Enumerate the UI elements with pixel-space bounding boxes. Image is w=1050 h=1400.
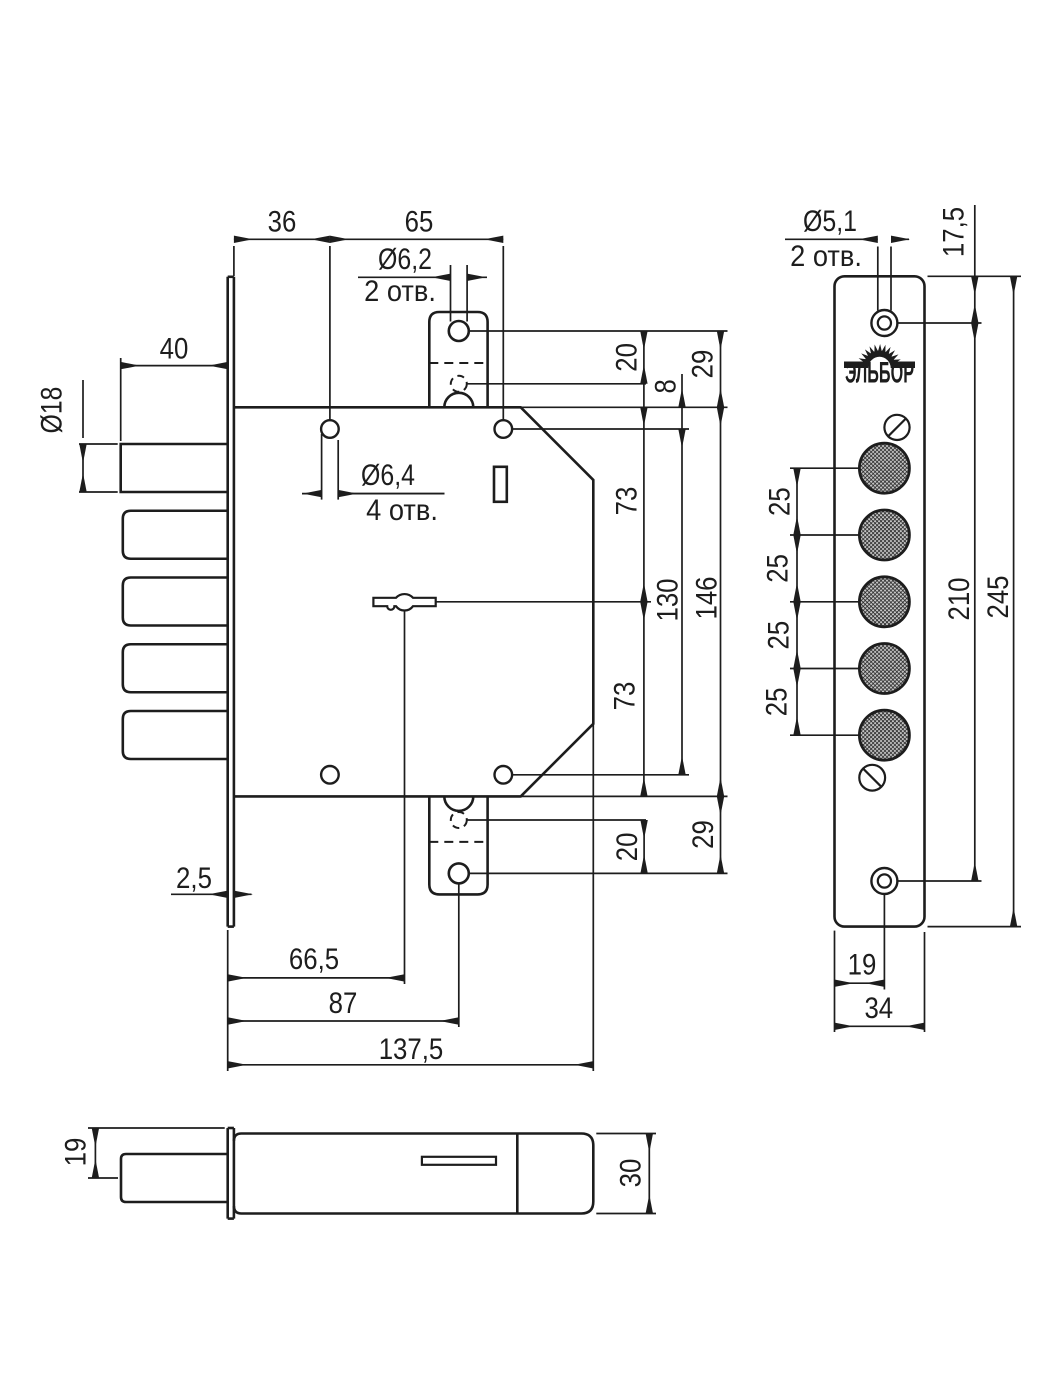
deadbolt 1 (dimensioned) [121,444,228,492]
dimension 36 (backset) [234,206,330,420]
mounting hole bottom-right (6.4) [495,766,513,784]
dimension chain 25x4 (bolt hole pitch) [760,468,859,735]
svg-text:40: 40 [160,333,189,366]
extension of plate bottom edge [928,926,1022,928]
svg-text:Ø5,1: Ø5,1 [803,205,857,238]
leader from top-right mount hole [512,428,689,430]
svg-text:19: 19 [848,949,877,982]
svg-text:Ø18: Ø18 [35,387,68,434]
svg-text:65: 65 [405,206,434,239]
dimension 17,5 [937,205,974,323]
svg-text:ЭЛЬБОР: ЭЛЬБОР [845,357,914,390]
svg-text:25: 25 [762,621,795,650]
dimension Ø18 (bolt diameter) [35,380,117,492]
svg-text:25: 25 [760,688,793,717]
dimension Ø6,2 2 holes (tab holes) [358,243,487,322]
svg-text:8: 8 [650,379,683,393]
svg-text:137,5: 137,5 [379,1033,444,1066]
top fixing tab [429,312,487,407]
top tab dashed fold line [429,362,487,364]
svg-text:20: 20 [610,343,643,372]
rectangular latch slot [494,467,507,502]
leader from plate bottom hole [897,880,981,882]
side view lock body [234,1134,593,1214]
bottom tab screw hole [449,863,469,883]
dimension 73 (upper half) [610,384,644,602]
dimension 19 (bolt axis offset) [59,1128,224,1178]
top tab half-round notch [444,393,473,407]
svg-text:2 отв.: 2 отв. [364,275,436,308]
extension of body bottom edge [521,795,728,797]
leader from top tab hole [469,330,728,332]
bolt hole 1 (hatched) [859,443,909,493]
mounting hole top-left (6.4) [321,420,339,438]
svg-text:Ø6,2: Ø6,2 [378,243,432,276]
dimension 210 (screw hole spacing) [943,323,976,881]
dimension 2,5 (faceplate thickness) [171,862,252,895]
dimension 29 (top) [686,331,720,407]
deadbolt 5 [123,711,228,759]
dimension 245 (plate length) [982,276,1015,926]
svg-text:245: 245 [982,576,1015,619]
dimension 137,5 (body depth) [228,1033,594,1066]
mounting hole bottom-left (6.4) [321,766,339,784]
dimension Ø6,4 4 holes (mount holes) [302,434,445,527]
bottom tab half-round notch [444,796,473,810]
dimension 87 (tab hole distance) [228,987,459,1021]
deadbolt 4 [123,644,228,692]
svg-text:29: 29 [687,820,720,849]
bolt hole 3 (hatched) [859,577,909,627]
bolt hole 4 (hatched) [859,644,909,694]
deadbolt 3 [123,578,228,626]
plate upper fixing screw [884,415,909,440]
svg-text:20: 20 [611,833,644,862]
mounting hole top-right (6.4) [495,420,513,438]
svg-text:130: 130 [651,579,684,622]
leader from keyhole [436,601,651,603]
plate bottom screw hole (Ø5,1 countersunk) [871,868,897,894]
extension of body right edge down [592,724,594,1071]
dimension 20 (top, tab holes) [610,331,644,384]
side view faceplate [228,1128,234,1219]
leader from bottom hidden hole [467,819,646,821]
dimension 19 (hole offset) [835,894,885,1032]
dimension 73 (lower half) [608,602,644,797]
svg-text:2 отв.: 2 отв. [790,240,862,273]
ELBOR logo [844,344,915,390]
dimension Ø5,1 2 holes (plate screw holes) [785,205,909,311]
svg-text:4 отв.: 4 отв. [366,494,438,527]
bottom fixing tab [429,796,487,894]
dimension 66,5 (keyhole distance) [228,943,405,978]
svg-text:19: 19 [59,1138,92,1167]
top tab hidden hole (dashed) [451,376,467,392]
dimension 65 [330,206,503,420]
top tab screw hole [449,321,469,341]
svg-text:Ø6,4: Ø6,4 [361,459,415,492]
leader from plate top hole [897,322,981,324]
svg-text:73: 73 [610,487,643,516]
dimension 40 (bolt protrusion) [121,333,228,441]
side view slot [422,1157,496,1165]
dimension 130 (mount hole spacing) [651,429,684,775]
svg-text:73: 73 [608,682,641,711]
svg-text:210: 210 [943,578,976,621]
extension from bottom tab hole down [458,883,460,1027]
dimension 146 (body height) [690,407,723,796]
svg-text:25: 25 [761,554,794,583]
lever keyhole [373,594,435,610]
dimension 30 (body thickness) [596,1134,656,1214]
svg-text:66,5: 66,5 [289,943,339,976]
svg-text:17,5: 17,5 [937,207,970,257]
extension of faceplate left edge down [227,930,229,1071]
svg-text:25: 25 [763,487,796,516]
dimension 20 (bottom, tab holes) [611,820,644,873]
plate lower fixing screw [859,765,885,791]
dimension 29 (bottom) [687,796,721,873]
extension of body top edge [521,406,728,408]
lock faceplate (front view, 2.5 mm strip) [228,277,234,927]
svg-text:34: 34 [864,992,893,1025]
bottom tab dashed fold line [429,841,487,843]
deadbolt 2 [123,511,228,559]
bolt hole 5 (hatched) [859,710,909,760]
svg-text:2,5: 2,5 [176,862,212,895]
extension of plate top edge [928,275,1022,277]
svg-text:146: 146 [690,577,723,620]
leader from top hidden hole [467,383,647,385]
dimension 8 (edge to hole) [650,374,683,429]
bottom tab hidden hole (dashed) [451,812,467,828]
svg-text:36: 36 [268,206,297,239]
side view deadbolt [121,1154,228,1202]
strike plate outline [835,276,925,926]
svg-text:29: 29 [686,350,719,379]
keyhole centre extension line [404,610,406,984]
side view body parting line [516,1134,519,1214]
plate top screw hole (Ø5,1 countersunk) [871,310,897,336]
leader from bottom tab hole [469,872,728,874]
svg-text:87: 87 [329,987,358,1020]
leader from bottom-right mount hole [512,774,689,776]
bolt hole 2 (hatched) [859,510,909,560]
dimension 34 (plate width) [835,932,925,1032]
lock body outline with chamfered right corners [234,407,593,796]
svg-text:30: 30 [614,1159,647,1188]
